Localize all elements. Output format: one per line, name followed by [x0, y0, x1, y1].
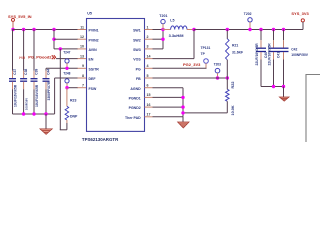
- node FSW junction: [65, 86, 68, 89]
- pin 6 AGND of U5: [130, 84, 152, 91]
- svg-text:SS/TR: SS/TR: [89, 67, 100, 71]
- wire branch to PVIN2/AVIN: [53, 30, 55, 49]
- ground symbol left: [40, 129, 52, 135]
- net label PG_PGood2 page refs: [19, 55, 25, 59]
- svg-text:SYS_3V3: SYS_3V3: [291, 11, 309, 16]
- pin 7 FSW of U5: [77, 84, 97, 91]
- svg-text:7: 7: [82, 84, 84, 88]
- terminal T247: [65, 59, 69, 63]
- svg-text:10.0K: 10.0K: [231, 105, 235, 115]
- wire PG: [153, 67, 207, 69]
- pin 17 Ther PAD of U5: [125, 113, 152, 120]
- pin 3 SW3 of U5: [133, 45, 152, 52]
- ground symbol center: [178, 122, 190, 128]
- terminal SYS_5V5_IN: [12, 18, 15, 21]
- node input rail junction at terminal: [11, 28, 14, 31]
- svg-text:PG: PG: [136, 67, 141, 71]
- node output gnd drop: [282, 85, 285, 88]
- svg-text:PVIN2: PVIN2: [89, 38, 99, 42]
- label C40: [264, 52, 268, 58]
- svg-text:2: 2: [147, 35, 149, 39]
- svg-text:100NF/50V: 100NF/50V: [291, 53, 308, 57]
- svg-text:12: 12: [80, 35, 84, 39]
- svg-text:T247: T247: [63, 51, 70, 55]
- node input rail to C39: [32, 28, 35, 31]
- off-page arrow PG_PGood2: [52, 55, 56, 59]
- wire gnd bus: [182, 88, 184, 117]
- wire Ther PAD: [153, 116, 184, 118]
- wire ground rail left: [13, 113, 55, 115]
- node SS/TR junction: [65, 67, 68, 70]
- capacitor C40 output: [256, 30, 266, 87]
- svg-text:15: 15: [147, 93, 151, 97]
- node PVIN2 tap: [52, 38, 55, 41]
- node output rail C41: [272, 28, 275, 31]
- ground symbol right: [279, 97, 289, 101]
- node input rail to PVIN2/AVIN branch: [52, 28, 55, 31]
- wire SW3 to SW bus: [153, 48, 164, 50]
- svg-text:EN: EN: [89, 58, 94, 62]
- pin 16 PGND2 of U5: [129, 103, 153, 110]
- pin 1 SW1 of U5: [133, 25, 152, 32]
- capacitor C42 output: [279, 30, 289, 87]
- wire output rail: [194, 29, 303, 31]
- svg-text:R23: R23: [70, 98, 76, 102]
- stub T248 to FSW: [66, 83, 68, 88]
- wire PVIN2: [54, 38, 78, 40]
- capacitor C37 input: [9, 30, 16, 115]
- svg-text:AVIN: AVIN: [89, 48, 98, 52]
- net label SYS_3V3: [291, 11, 309, 16]
- svg-text:SW2: SW2: [133, 38, 141, 42]
- resistor R21: [226, 30, 230, 79]
- svg-text:T201: T201: [159, 14, 167, 18]
- pin 5 FB of U5: [136, 74, 152, 81]
- svg-text:16: 16: [147, 103, 151, 107]
- value C38: [24, 98, 28, 110]
- node gnd rail C38: [22, 112, 25, 115]
- svg-text:C42: C42: [291, 48, 297, 52]
- node output gnd C41: [272, 85, 275, 88]
- svg-text:3: 3: [147, 45, 149, 49]
- label C37: [13, 69, 17, 75]
- label T247: [63, 51, 70, 55]
- svg-text:3300PF/X7R: 3300PF/X7R: [47, 81, 51, 100]
- svg-text:Ther PAD: Ther PAD: [125, 116, 141, 120]
- svg-text:T202: T202: [244, 12, 252, 16]
- svg-text:22UF/16V/X5R: 22UF/16V/X5R: [268, 43, 272, 66]
- wire DEF: [55, 77, 78, 79]
- svg-text:C44: C44: [47, 69, 51, 75]
- node gnd rail C44/gnd drop: [44, 112, 47, 115]
- wire SW1 to SW bus: [153, 29, 164, 31]
- wire output gnd drop: [283, 87, 285, 98]
- svg-text:11: 11: [80, 25, 84, 29]
- test point TP131: [204, 59, 209, 64]
- svg-text:PG_PGood2: PG_PGood2: [28, 55, 52, 60]
- node T203 on FB wire: [216, 76, 219, 79]
- value R22 10.0K: [231, 105, 235, 115]
- svg-text:PVIN1: PVIN1: [89, 29, 99, 33]
- value R21 31.6KF: [232, 50, 243, 54]
- pin 8 DEF of U5: [77, 74, 96, 81]
- wire SW2 to SW bus: [153, 38, 164, 40]
- node gnd bus R22 return: [181, 111, 184, 114]
- pin 9 SS/TR of U5: [77, 64, 99, 71]
- wire AGND to gnd bus: [153, 87, 184, 89]
- label R23: [70, 98, 76, 102]
- label R21: [232, 43, 238, 47]
- svg-text:22UF/16V/X5R: 22UF/16V/X5R: [255, 43, 259, 66]
- value C42 100NF/50V: [291, 53, 308, 57]
- wire DEF to ground rail: [54, 78, 56, 114]
- resistor R22: [226, 78, 230, 113]
- svg-text:31.6KF: 31.6KF: [232, 50, 243, 54]
- svg-text:C41: C41: [276, 52, 280, 58]
- IC reference designator U5: [87, 12, 92, 16]
- svg-text:5: 5: [147, 74, 149, 78]
- wire AVIN branch to R23 bottom: [60, 129, 67, 131]
- pin 14 VOS of U5: [133, 54, 152, 61]
- wire rail corner up to SYS_3V3: [294, 22, 303, 30]
- wire AVIN: [54, 48, 78, 50]
- wire SS/TR: [46, 67, 78, 69]
- pin 4 PG of U5: [136, 64, 153, 71]
- svg-text:17: 17: [147, 113, 151, 117]
- svg-text:TP131: TP131: [201, 46, 211, 50]
- wire SW node to inductor: [163, 29, 171, 31]
- svg-text:C38: C38: [24, 69, 28, 75]
- wire R22 bottom to gnd bus: [183, 112, 227, 114]
- wire EN from PG_PGood2: [56, 58, 78, 60]
- node output rail C40: [259, 28, 262, 31]
- label T248: [63, 71, 70, 75]
- inductor L5: [171, 26, 187, 30]
- terminal T203: [215, 68, 220, 73]
- wire PGND2: [153, 106, 184, 108]
- svg-text:PGND1: PGND1: [129, 97, 141, 101]
- svg-text:FB: FB: [136, 77, 141, 81]
- svg-text:FSW: FSW: [89, 87, 97, 91]
- label DNP: [70, 114, 78, 118]
- node gnd bus PGND1: [181, 96, 184, 99]
- wire VOS riser: [193, 30, 195, 59]
- wire VOS: [153, 58, 195, 60]
- terminal T201: [161, 19, 165, 23]
- label C39: [35, 69, 39, 75]
- value C41: [268, 43, 272, 66]
- terminal SYS_3V3: [301, 19, 304, 22]
- node VOS junction on output rail: [192, 28, 195, 31]
- svg-text:PGND2: PGND2: [129, 106, 141, 110]
- label TP: [201, 52, 206, 56]
- svg-text:T203: T203: [214, 63, 221, 67]
- svg-text:(4,8): (4,8): [19, 55, 25, 59]
- node FB divider junction: [226, 76, 229, 79]
- net label PG2_3V3: [183, 62, 201, 67]
- svg-text:SW1: SW1: [133, 29, 141, 33]
- pin 11 PVIN1 of U5: [77, 25, 99, 32]
- wire PGND1: [153, 96, 184, 98]
- svg-text:R22: R22: [231, 82, 235, 89]
- pin 12 PVIN2 of U5: [77, 35, 99, 42]
- value C39: [35, 84, 39, 107]
- node input rail to C38: [22, 28, 25, 31]
- label T202: [244, 12, 252, 16]
- pin 10 AVIN of U5: [77, 45, 97, 52]
- node SW bus SW2: [161, 38, 164, 41]
- svg-text:AGND: AGND: [130, 87, 141, 91]
- stub T202: [249, 22, 251, 30]
- svg-text:4: 4: [147, 64, 149, 68]
- svg-text:SYS_5V5_IN: SYS_5V5_IN: [8, 14, 32, 19]
- svg-text:3.3uH/M: 3.3uH/M: [169, 33, 184, 38]
- svg-text:DEF: DEF: [89, 77, 97, 81]
- label TP131: [201, 46, 211, 50]
- svg-text:R21: R21: [232, 43, 238, 47]
- svg-text:SW3: SW3: [133, 48, 141, 52]
- svg-text:13: 13: [80, 54, 84, 58]
- capacitor C44 on SS/TR: [43, 68, 50, 114]
- wire inductor to VOS node: [187, 29, 194, 31]
- value C44: [47, 81, 51, 100]
- svg-text:10: 10: [80, 45, 84, 49]
- IC part number TPS62130ARGTR: [82, 137, 119, 142]
- pin 15 PGND1 of U5: [129, 93, 153, 100]
- label R22: [231, 82, 235, 89]
- capacitor C38 input: [20, 30, 27, 115]
- svg-text:TPS62130ARGTR: TPS62130ARGTR: [82, 137, 119, 142]
- node output rail C42: [282, 28, 285, 31]
- label C38: [24, 69, 28, 75]
- wire FB: [153, 77, 228, 79]
- wire terminal to input rail: [12, 21, 14, 29]
- svg-text:TP: TP: [201, 52, 206, 56]
- wire gnd drop: [45, 114, 47, 129]
- label C41: [276, 52, 280, 58]
- capacitor C39 input: [31, 30, 38, 115]
- svg-text:1: 1: [147, 25, 149, 29]
- svg-text:14: 14: [147, 54, 151, 58]
- label T201: [159, 14, 167, 18]
- stub T247 to SS/TR: [66, 63, 68, 68]
- value C37: [14, 84, 18, 107]
- svg-text:U5: U5: [87, 12, 92, 16]
- value L5 3.3uH/M: [169, 33, 184, 38]
- net label SYS_5V5_IN: [8, 14, 32, 19]
- pin 13 EN of U5: [77, 54, 94, 61]
- label T203: [214, 63, 221, 67]
- adjacent sheet frame corner: [306, 75, 320, 143]
- svg-text:L5: L5: [170, 19, 174, 23]
- svg-text:T248: T248: [63, 71, 70, 75]
- svg-text:6: 6: [147, 84, 149, 88]
- svg-text:10UF/16V/X5R: 10UF/16V/X5R: [14, 84, 18, 107]
- node SW bus top: [161, 28, 164, 31]
- svg-text:C37: C37: [13, 69, 17, 75]
- terminal T248: [65, 79, 69, 83]
- svg-text:8: 8: [82, 74, 84, 78]
- terminal T202: [248, 18, 252, 22]
- node gnd bus PGND2: [181, 105, 184, 108]
- capacitor C41 output: [269, 30, 279, 87]
- label C42: [291, 48, 297, 52]
- svg-text:VOS: VOS: [133, 58, 141, 62]
- node gnd rail C39: [32, 112, 35, 115]
- net label PG_PGood2: [28, 55, 52, 60]
- IC U5 TPS62130ARGTR body: [87, 19, 145, 132]
- stub T201: [162, 24, 164, 30]
- svg-text:PG2_3V3: PG2_3V3: [183, 62, 201, 67]
- stub TP131 to PG wire: [205, 63, 207, 68]
- wire gnd bus drop: [182, 117, 184, 122]
- wire SW bus: [162, 30, 164, 49]
- wire AVIN branch down: [59, 49, 61, 130]
- svg-text:10UF/16V: 10UF/16V: [24, 98, 28, 110]
- node output rail T202: [248, 28, 251, 31]
- svg-text:DNP: DNP: [70, 114, 78, 118]
- pin 2 SW2 of U5: [133, 35, 152, 42]
- svg-text:10UF/16V/X5R: 10UF/16V/X5R: [35, 84, 39, 107]
- stub T203 to FB node: [217, 73, 219, 78]
- resistor R23 (DNP): [65, 88, 69, 130]
- svg-text:9: 9: [82, 64, 84, 68]
- node output rail to R21: [226, 28, 229, 31]
- node AVIN branch down: [59, 47, 62, 50]
- svg-text:C39: C39: [35, 69, 39, 75]
- label C44: [47, 69, 51, 75]
- label L5: [170, 19, 174, 23]
- wire output gnd rail: [261, 86, 284, 88]
- wire input rail PVIN1: [13, 29, 78, 31]
- value C40: [255, 43, 259, 66]
- wire FSW: [67, 87, 78, 89]
